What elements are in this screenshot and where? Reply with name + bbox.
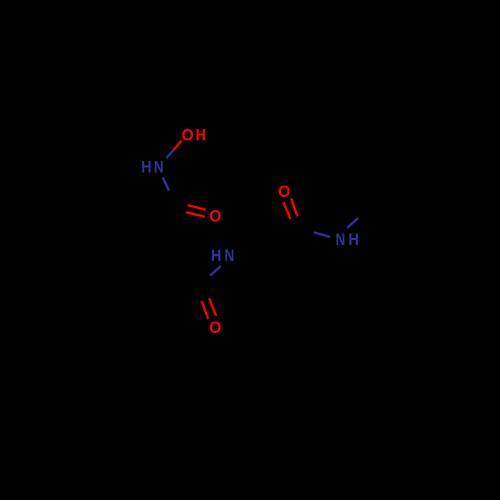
- bond N3-C4 (N half): [347, 218, 358, 228]
- double bond C1=O2 upper line (O half): [188, 205, 206, 210]
- svg-text:O: O: [278, 182, 290, 201]
- double bond C3=O4 right line (O half): [291, 198, 297, 216]
- bond C3-N3 (N half): [314, 232, 330, 237]
- svg-text:N: N: [154, 158, 164, 177]
- double bond C2=O3 left line (O half): [202, 301, 209, 319]
- svg-text:N: N: [225, 246, 235, 265]
- svg-text:H: H: [141, 158, 151, 177]
- svg-text:H: H: [196, 126, 206, 145]
- bond N2-C2 (N half): [210, 266, 221, 276]
- svg-text:O: O: [182, 126, 194, 145]
- svg-text:O: O: [209, 318, 221, 337]
- svg-text:N: N: [335, 230, 345, 249]
- svg-text:H: H: [211, 246, 221, 265]
- double bond C3=O4 left line (O half): [283, 202, 290, 219]
- double bond C2=O3 right line (O half): [209, 298, 216, 316]
- double bond C1=O2 lower line (O half): [186, 212, 205, 217]
- svg-text:O: O: [209, 207, 221, 226]
- bond N1-O1 (O half): [174, 141, 182, 150]
- bond N1-O1 (N half): [166, 150, 174, 158]
- svg-text:H: H: [348, 230, 358, 249]
- bond N1-C1 (N half): [163, 177, 169, 190]
